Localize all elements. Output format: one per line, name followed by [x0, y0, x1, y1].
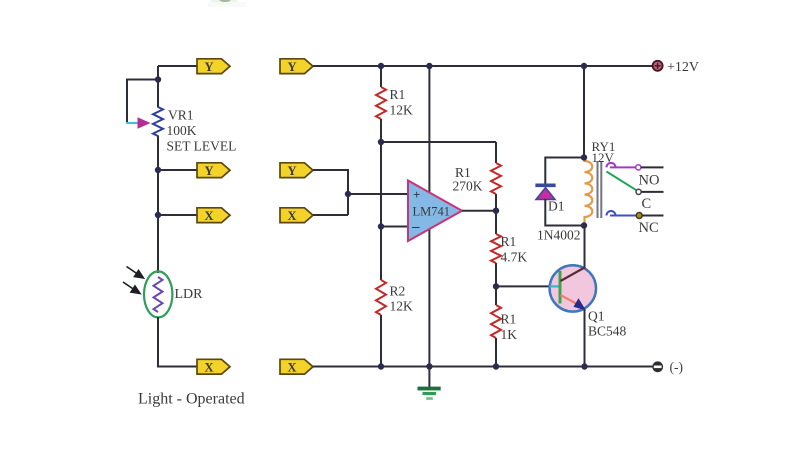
- junction: + input node: [345, 191, 351, 197]
- svg-text:X: X: [204, 209, 213, 223]
- op-amp U1 LM741: [408, 181, 462, 242]
- junction: output node: [493, 208, 499, 214]
- wire: op-amp output lead: [462, 210, 496, 212]
- svg-text:C: C: [642, 196, 652, 212]
- wire: LDR to bottom corner: [158, 317, 198, 367]
- wire: stub to X tag: [158, 214, 198, 216]
- junction: top rail at divider: [378, 63, 384, 69]
- svg-text:VR1: VR1: [168, 108, 194, 123]
- transistor Q1 collector stroke: [561, 267, 586, 281]
- relay RY1 coil: [585, 158, 593, 224]
- wire: 270K drop: [495, 142, 497, 163]
- junction: top rail at relay feed: [581, 63, 587, 69]
- svg-text:(-): (-): [670, 360, 684, 375]
- svg-text:Q1: Q1: [588, 309, 605, 324]
- ground bar 3: [426, 397, 433, 400]
- junction: rail at 1K: [493, 363, 499, 369]
- wire: left Y1 tag stub: [158, 65, 198, 67]
- wire: stub to mid Y tag: [158, 169, 198, 171]
- wire: divider column middle: [380, 119, 382, 280]
- diode D1 cathode bar: [535, 184, 555, 188]
- potentiometer VR1 wiper arrow: [138, 117, 151, 129]
- wire: ground rail: [313, 366, 653, 368]
- junction: rail at supply line: [426, 363, 432, 369]
- junction: coil bottom node: [581, 222, 587, 228]
- resistor R1 (1K): [491, 305, 501, 338]
- svg-text:NO: NO: [639, 173, 660, 189]
- relay contact NC arm: [607, 211, 643, 219]
- wire: collector to coil: [584, 226, 586, 269]
- wire: C terminal lead: [641, 191, 663, 193]
- tag X (input mid): [280, 208, 313, 223]
- svg-text:Y: Y: [287, 60, 296, 74]
- junction: rail at divider: [378, 363, 384, 369]
- resistor R1 (12K top): [376, 87, 386, 119]
- svg-text:LDR: LDR: [175, 287, 204, 302]
- resistor R1 (270K): [491, 163, 501, 194]
- resistor R1 (4.7K): [491, 234, 501, 263]
- svg-text:NC: NC: [639, 220, 659, 236]
- wire: left vertical main (middle): [157, 136, 159, 274]
- relay contact C arm: [607, 172, 642, 195]
- wire: inverting input lead: [381, 226, 409, 228]
- svg-text:D1: D1: [548, 199, 565, 214]
- faint cropped logo top: [208, 0, 246, 7]
- relay core line 1: [597, 161, 599, 218]
- transistor Q1 emitter stroke: [561, 295, 578, 304]
- svg-text:LM741: LM741: [413, 205, 451, 219]
- junction: node at mid Y: [155, 167, 161, 173]
- tag X (left bottom): [197, 359, 230, 374]
- wire: base lead: [496, 285, 549, 287]
- svg-text:–: –: [411, 219, 420, 235]
- wire: D1 bottom link: [545, 199, 584, 226]
- svg-text:Light - Operated: Light - Operated: [138, 391, 245, 408]
- junction: top rail at supply line: [426, 63, 432, 69]
- LDR body: [144, 271, 172, 317]
- wire: relay feed from +12V: [583, 66, 585, 158]
- tag Y (input mid): [280, 163, 313, 178]
- svg-text:R1: R1: [501, 234, 517, 249]
- ground bar 1: [418, 387, 441, 391]
- wire: 1K to ground rail: [495, 338, 497, 367]
- tag Y (left middle): [197, 163, 230, 178]
- svg-text:1N4002: 1N4002: [537, 228, 581, 243]
- svg-text:Y: Y: [204, 164, 213, 178]
- svg-text:X: X: [287, 360, 296, 374]
- wire: D1 top link: [545, 158, 584, 185]
- transistor Q1 body: [550, 265, 596, 311]
- svg-text:12K: 12K: [390, 299, 414, 314]
- junction: base node: [493, 283, 499, 289]
- tag X (left): [197, 208, 230, 223]
- wire: NC terminal lead: [642, 215, 663, 217]
- junction: coil top node: [581, 154, 587, 160]
- svg-text:R2: R2: [390, 284, 406, 299]
- wire: wiper cyan segment: [126, 122, 138, 124]
- wire: Y input to + node: [313, 170, 348, 215]
- LDR resistive element: [154, 277, 163, 312]
- svg-text:R1: R1: [501, 312, 517, 327]
- svg-text:BC548: BC548: [588, 324, 627, 339]
- svg-text:270K: 270K: [453, 179, 483, 194]
- wire: left vertical main (upper): [157, 66, 159, 108]
- wire: NO terminal lead: [641, 166, 664, 168]
- svg-text:+12V: +12V: [667, 60, 699, 75]
- wire: X input joins node: [313, 214, 348, 216]
- wire: 270K to output node: [495, 194, 497, 234]
- wire: non-inverting input lead: [348, 193, 409, 195]
- wire: ground stem: [428, 367, 430, 388]
- relay contact NO arm: [607, 163, 641, 170]
- terminal +12V: [653, 61, 663, 71]
- tag Y (left top): [197, 59, 230, 74]
- terminal (-): [652, 361, 663, 372]
- ground bar 2: [423, 392, 437, 395]
- resistor R2 (12K bottom): [376, 280, 386, 315]
- wire: divider column upper: [380, 66, 382, 87]
- svg-text:4.7K: 4.7K: [501, 250, 528, 265]
- wire: op-amp supply rail (vertical through U1): [428, 66, 430, 367]
- svg-text:X: X: [287, 209, 296, 223]
- svg-text:Y: Y: [287, 164, 296, 178]
- svg-text:Y: Y: [204, 60, 213, 74]
- transistor Q1 base contact (cyan): [550, 285, 559, 287]
- svg-text:100K: 100K: [167, 123, 197, 138]
- tag Y (input top): [280, 59, 313, 74]
- wire: wiper feedback loop: [127, 80, 158, 124]
- svg-text:12K: 12K: [390, 103, 414, 118]
- junction: - input node: [378, 223, 384, 229]
- junction: rail at emitter: [581, 363, 587, 369]
- transistor Q1 base bar: [559, 271, 562, 304]
- svg-text:SET LEVEL: SET LEVEL: [167, 139, 237, 154]
- junction: divider/feedback node: [378, 139, 384, 145]
- svg-text:X: X: [204, 360, 213, 374]
- diode D1 anode triangle: [536, 188, 555, 200]
- LDR light arrows: [123, 267, 144, 294]
- potentiometer VR1 element: [153, 107, 163, 136]
- wire: emitter to ground rail: [584, 310, 586, 367]
- wire: +12V top rail: [313, 65, 653, 67]
- wire: divider column lower: [380, 315, 382, 367]
- junction: node at X: [155, 212, 161, 218]
- svg-text:R1: R1: [390, 87, 406, 102]
- tag X (input bottom): [280, 359, 313, 374]
- wire: 4.7K to base node: [495, 263, 497, 305]
- transistor Q1 emitter arrow: [574, 298, 587, 310]
- svg-text:1K: 1K: [501, 327, 518, 342]
- junction: wiper top: [155, 76, 161, 82]
- svg-text:+: +: [413, 187, 420, 202]
- wire: feedback top link to 270K: [381, 141, 496, 143]
- relay core line 2: [600, 161, 602, 218]
